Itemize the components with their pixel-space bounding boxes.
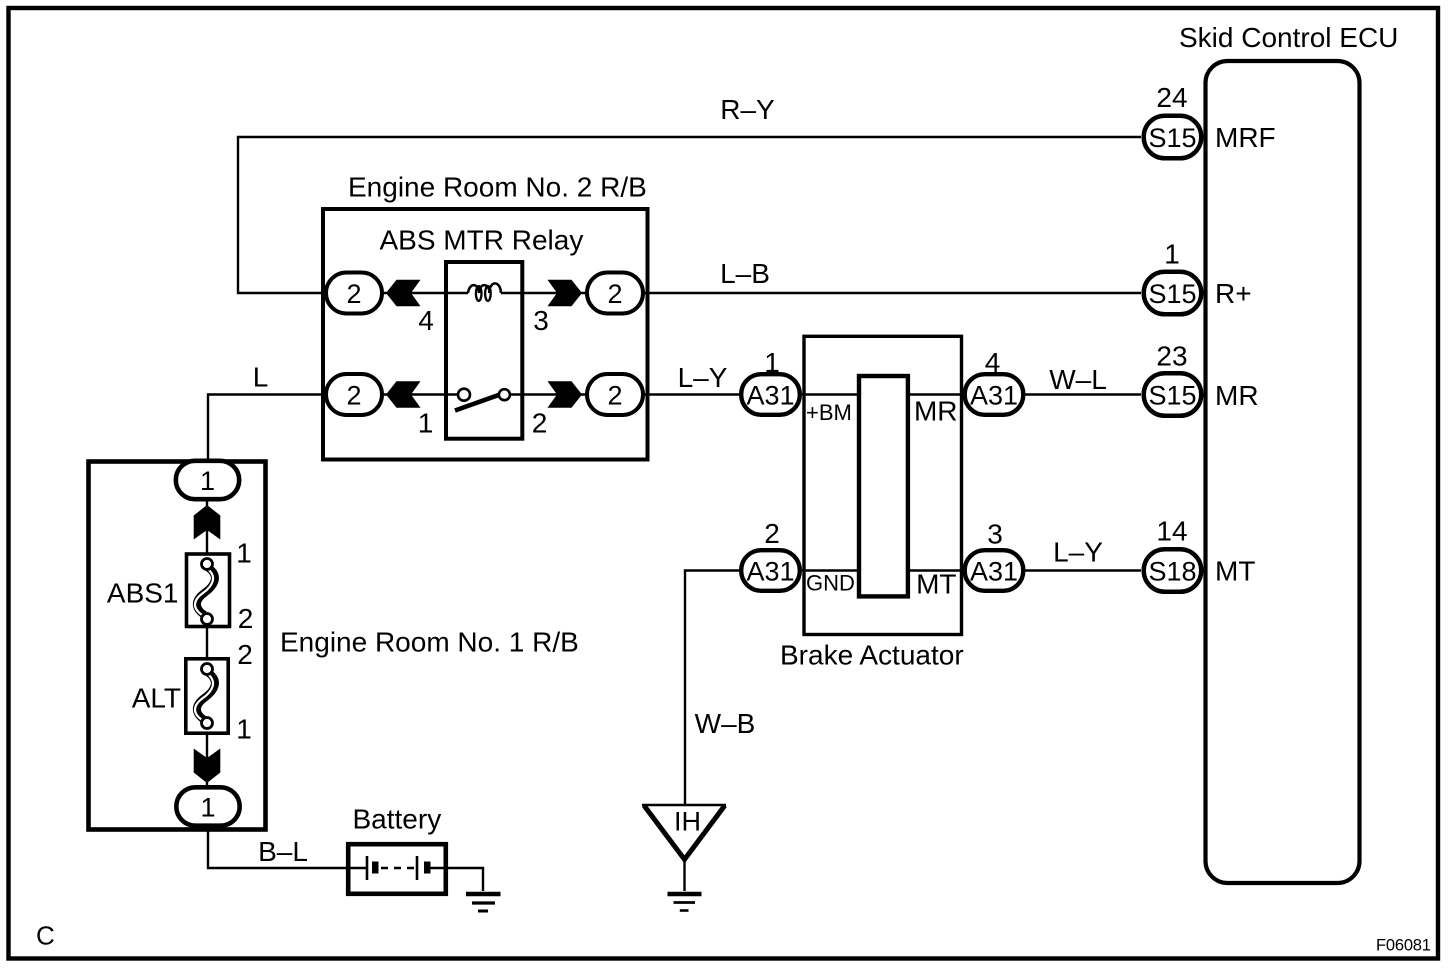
svg-text:Skid Control ECU: Skid Control ECU bbox=[1179, 22, 1398, 53]
svg-text:S15: S15 bbox=[1148, 123, 1196, 153]
relay connector 2 (row2 right) bbox=[587, 374, 643, 415]
wire brake actuator GND row internal bbox=[802, 569, 964, 571]
junction block connector 1 (top) bbox=[176, 461, 239, 499]
svg-text:Engine Room No. 2 R/B: Engine Room No. 2 R/B bbox=[348, 172, 647, 203]
wire L: junction block 1 to relay switch row bbox=[208, 395, 325, 461]
connector A31 pin 3 bbox=[965, 550, 1024, 591]
svg-text:4: 4 bbox=[985, 347, 1001, 378]
arrow right row1 bbox=[548, 280, 583, 307]
svg-text:ABS1: ABS1 bbox=[107, 578, 179, 609]
svg-text:4: 4 bbox=[418, 305, 434, 336]
svg-text:W–L: W–L bbox=[1049, 364, 1107, 395]
relay connector 2 (row1 right) bbox=[587, 273, 643, 314]
svg-text:S18: S18 bbox=[1148, 556, 1196, 586]
battery cells bbox=[346, 867, 366, 869]
Skid Control ECU U1 body bbox=[1206, 61, 1360, 883]
junction block connector 1 (bottom) bbox=[176, 787, 239, 825]
relay switch blade bbox=[455, 395, 500, 411]
svg-text:2: 2 bbox=[346, 380, 361, 410]
svg-text:IH: IH bbox=[674, 807, 701, 837]
svg-text:A31: A31 bbox=[970, 380, 1018, 410]
svg-text:2: 2 bbox=[532, 408, 548, 439]
Brake Actuator box bbox=[804, 336, 962, 634]
svg-text:F06081: F06081 bbox=[1376, 937, 1431, 955]
svg-text:Engine Room No. 1 R/B: Engine Room No. 1 R/B bbox=[280, 627, 579, 658]
svg-text:3: 3 bbox=[987, 519, 1003, 550]
connector S15 pin 1 bbox=[1144, 272, 1202, 315]
svg-text:1: 1 bbox=[200, 792, 215, 822]
svg-text:S15: S15 bbox=[1148, 380, 1196, 410]
svg-text:1: 1 bbox=[1164, 239, 1180, 270]
svg-text:A31: A31 bbox=[746, 380, 794, 410]
relay connector 2 (row1 left) bbox=[326, 273, 382, 314]
connector A31 pin 2 bbox=[741, 550, 800, 591]
arrow right row2 bbox=[548, 381, 583, 408]
connector S18 pin 14 bbox=[1144, 549, 1202, 592]
wire brake actuator +BM row internal bbox=[802, 393, 964, 395]
wire L-B: relay to ECU pin 1 bbox=[644, 292, 1141, 294]
svg-text:14: 14 bbox=[1156, 516, 1187, 547]
wire B-L: junction block to battery bbox=[208, 826, 347, 868]
svg-text:L–Y: L–Y bbox=[678, 362, 728, 393]
wire L-Y: relay to brake actuator pin 1 bbox=[643, 393, 740, 395]
wire W-L: brake actuator pin 4 to ECU pin 23 bbox=[1024, 393, 1141, 395]
arrow down bbox=[194, 749, 221, 784]
connector S15 pin 23 bbox=[1144, 373, 1202, 416]
svg-text:3: 3 bbox=[533, 305, 549, 336]
svg-text:GND: GND bbox=[806, 571, 855, 596]
svg-text:2: 2 bbox=[237, 639, 253, 670]
svg-text:A31: A31 bbox=[746, 556, 794, 586]
Engine Room No. 1 R/B box bbox=[89, 462, 266, 830]
ground IH triangle bbox=[642, 804, 726, 807]
fuse ABS1 element bbox=[197, 568, 215, 616]
svg-text:L: L bbox=[253, 362, 269, 393]
relay K1 case bbox=[446, 262, 522, 439]
svg-text:S15: S15 bbox=[1148, 279, 1196, 309]
wire IH to ground bbox=[683, 859, 685, 891]
relay connector 2 (row2 left) bbox=[326, 374, 382, 415]
wire W-B: brake actuator pin 2 to ground IH bbox=[685, 571, 740, 806]
arrow left row1 bbox=[386, 280, 421, 307]
svg-text:2: 2 bbox=[607, 380, 622, 410]
svg-text:R+: R+ bbox=[1215, 278, 1252, 309]
connector A31 pin 4 bbox=[965, 374, 1024, 415]
svg-text:24: 24 bbox=[1156, 82, 1187, 113]
ground (IH) bbox=[668, 892, 702, 896]
relay switch contact right bbox=[499, 389, 510, 400]
svg-text:C: C bbox=[36, 921, 55, 951]
svg-text:W–B: W–B bbox=[695, 708, 756, 739]
wire L-Y: brake actuator pin 3 to ECU pin 14 bbox=[1024, 569, 1141, 571]
wire battery to ground bbox=[448, 868, 483, 891]
Battery box bbox=[348, 844, 446, 894]
arrow left row2 bbox=[386, 381, 421, 408]
svg-text:B–L: B–L bbox=[258, 836, 308, 867]
wire relay switch row internal bbox=[384, 393, 586, 395]
wire inside junction block 1 bbox=[206, 480, 208, 806]
svg-text:Battery: Battery bbox=[353, 804, 442, 835]
arrow up bbox=[194, 505, 221, 540]
svg-text:2: 2 bbox=[607, 279, 622, 309]
svg-text:A31: A31 bbox=[970, 556, 1018, 586]
svg-text:2: 2 bbox=[346, 279, 361, 309]
svg-text:MR: MR bbox=[1215, 380, 1259, 411]
svg-text:MT: MT bbox=[916, 569, 956, 600]
relay switch contact left bbox=[458, 389, 470, 401]
svg-text:Brake Actuator: Brake Actuator bbox=[780, 640, 964, 671]
ground (battery) bbox=[466, 892, 501, 896]
svg-text:MT: MT bbox=[1215, 556, 1255, 587]
svg-text:1: 1 bbox=[236, 714, 252, 745]
svg-text:R–Y: R–Y bbox=[720, 94, 775, 125]
svg-text:1: 1 bbox=[200, 466, 215, 496]
svg-text:L–Y: L–Y bbox=[1053, 537, 1103, 568]
connector S15 pin 24 bbox=[1144, 116, 1202, 159]
svg-text:1: 1 bbox=[418, 408, 434, 439]
fuse ALT box bbox=[186, 659, 228, 733]
wire R-Y: ECU pin 24 to relay coil row bbox=[238, 137, 1141, 293]
svg-text:1: 1 bbox=[764, 347, 780, 378]
connector A31 pin 1 bbox=[741, 374, 800, 415]
wire relay coil row internal bbox=[384, 292, 586, 294]
fuse ALT element bbox=[197, 673, 215, 721]
svg-text:ALT: ALT bbox=[132, 683, 181, 714]
Engine Room No. 2 R/B box bbox=[323, 209, 648, 460]
svg-text:L–B: L–B bbox=[720, 258, 770, 289]
brake actuator motor bar bbox=[859, 376, 908, 596]
svg-text:1: 1 bbox=[236, 538, 252, 569]
svg-text:23: 23 bbox=[1156, 341, 1187, 372]
svg-text:MR: MR bbox=[914, 396, 958, 427]
svg-text:2: 2 bbox=[764, 518, 780, 549]
svg-text:2: 2 bbox=[238, 603, 254, 634]
svg-text:ABS MTR Relay: ABS MTR Relay bbox=[380, 225, 584, 256]
svg-text:MRF: MRF bbox=[1215, 122, 1276, 153]
svg-text:+BM: +BM bbox=[806, 400, 852, 425]
relay coil bbox=[468, 283, 501, 293]
fuse ABS1 box bbox=[187, 554, 230, 627]
